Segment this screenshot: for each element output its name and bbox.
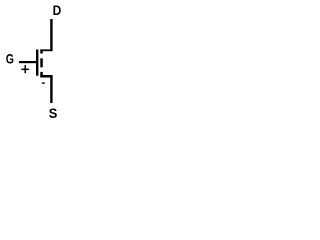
polarity minus sign vGS: [42, 82, 45, 83]
wire source horizontal stub: [40, 75, 52, 78]
svg-text:D: D: [53, 2, 62, 18]
transistor M1 channel middle segment: [40, 58, 43, 67]
transistor M1 channel bottom segment (source contact): [40, 72, 43, 78]
wire drain vertical: [50, 19, 52, 51]
polarity plus sign vGS: [21, 65, 29, 73]
wire drain horizontal stub: [40, 49, 52, 51]
transistor M1 channel top segment (drain contact): [40, 49, 43, 53]
svg-text:S: S: [49, 105, 58, 121]
wire source vertical: [50, 75, 52, 103]
svg-text:G: G: [6, 51, 14, 67]
wire gate horizontal: [19, 61, 37, 63]
transistor M1 gate electrode bar: [36, 50, 38, 76]
